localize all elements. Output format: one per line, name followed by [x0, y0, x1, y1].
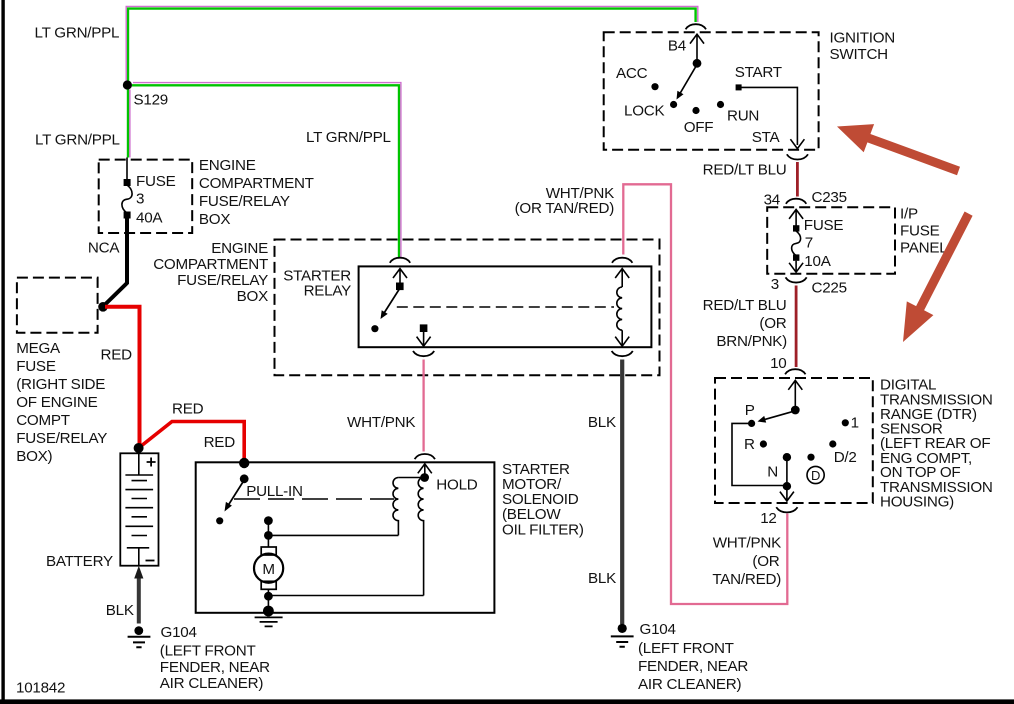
- svg-text:BOX: BOX: [199, 211, 230, 228]
- page left border: [1, 0, 4, 702]
- svg-text:WHT/PNK: WHT/PNK: [713, 535, 781, 552]
- contact dot N: [783, 453, 791, 461]
- relay mechanical link (dashed): [397, 306, 614, 308]
- svg-text:IGNITION: IGNITION: [830, 30, 896, 47]
- ignition B4 connector (half, above box): [686, 24, 706, 29]
- svg-text:RELAY: RELAY: [304, 283, 352, 300]
- svg-text:OF ENGINE: OF ENGINE: [16, 394, 97, 411]
- relay coil input connector (half, above box): [612, 258, 632, 263]
- motor lower dot: [264, 592, 273, 601]
- starter relay box: [359, 266, 652, 347]
- ignition switch blade: [679, 65, 698, 97]
- svg-text:D/2: D/2: [834, 449, 857, 466]
- engine compartment fuse box (dashed) around fuse 3: [99, 160, 193, 233]
- pull-in mechanical link (dashed, under label): [234, 498, 394, 500]
- svg-text:BATTERY: BATTERY: [46, 553, 113, 570]
- node at mega fuse output: [98, 302, 108, 312]
- wire LT GRN/PPL purple tracer (top run): [126, 6, 698, 88]
- svg-text:(OR: (OR: [752, 553, 779, 570]
- hold coil top tie wire: [398, 477, 424, 479]
- svg-text:C225: C225: [812, 279, 847, 296]
- svg-text:(OR: (OR: [759, 315, 786, 332]
- svg-text:TAN/RED): TAN/RED): [712, 571, 781, 588]
- wire RED: mega fuse to battery positive: [105, 307, 140, 446]
- wire RED/LT BLU (OR BRN/PNK): C225 to DTR pin 10: [795, 286, 798, 368]
- svg-text:COMPARTMENT: COMPARTMENT: [153, 256, 268, 273]
- relay input connector (half, above box): [390, 258, 410, 263]
- DTR sensor pin 10 connector (half, above box): [785, 369, 805, 374]
- motor M armature circle: [254, 554, 283, 583]
- wire BLK: relay coil to G104 (right): [620, 360, 624, 625]
- wire WHT/PNK: relay switch output down to solenoid: [422, 360, 424, 452]
- annotation arrow (to DTR sensor): [903, 212, 973, 343]
- annotation arrow (to ignition switch): [837, 124, 960, 175]
- wire P to N output: [732, 423, 787, 485]
- ground node on solenoid case: [263, 606, 274, 617]
- svg-text:MEGA: MEGA: [16, 340, 61, 357]
- svg-text:STA: STA: [752, 129, 781, 146]
- svg-text:3: 3: [136, 191, 144, 208]
- connector C235 (half, above panel): [786, 199, 806, 204]
- svg-text:P: P: [745, 402, 755, 419]
- motor feed upper dot: [264, 516, 273, 525]
- relay output connector (half, below box): [413, 351, 434, 356]
- motor M lower brush box: [261, 581, 276, 589]
- circled D symbol: [807, 466, 824, 483]
- svg-text:LOCK: LOCK: [624, 103, 664, 120]
- battery plates: [125, 475, 153, 536]
- wire LT GRN/PPL: S129 to starter relay (green): [132, 85, 399, 257]
- DTR input arrow pin 10: [788, 380, 802, 407]
- svg-text:FUSE/RELAY: FUSE/RELAY: [16, 430, 107, 447]
- N output junction dot: [783, 482, 791, 490]
- DTR selector blade (to P): [761, 411, 796, 421]
- svg-text:G104: G104: [161, 624, 197, 641]
- svg-text:3: 3: [771, 276, 779, 293]
- fuse F3 element: [122, 185, 132, 213]
- svg-text:LT GRN/PPL: LT GRN/PPL: [306, 129, 391, 146]
- connector C225 (half, below panel): [786, 277, 807, 282]
- svg-text:OFF: OFF: [684, 119, 714, 136]
- svg-text:(BELOW: (BELOW: [502, 506, 561, 523]
- DTR output arrow (down to box edge): [780, 488, 794, 501]
- contact dot RUN: [717, 101, 724, 108]
- svg-text:12: 12: [760, 510, 776, 527]
- fuse F7 element: [792, 231, 801, 256]
- battery negative terminal tee: [127, 548, 149, 566]
- wire RED/LT BLU: ignition STA to C235: [796, 162, 799, 197]
- N to output stem: [786, 457, 788, 488]
- svg-text:BOX): BOX): [16, 448, 52, 465]
- relay coil output connector (half, below box): [612, 351, 633, 356]
- svg-text:(RIGHT SIDE: (RIGHT SIDE: [16, 376, 105, 393]
- wire WHT/PNK: relay coil top loop to DTR pin 12: [623, 184, 787, 604]
- svg-text:(LEFT FRONT: (LEFT FRONT: [160, 642, 256, 659]
- svg-text:RED/LT BLU: RED/LT BLU: [703, 162, 787, 179]
- svg-text:BLK: BLK: [588, 414, 616, 431]
- relay coil: [617, 287, 622, 330]
- svg-text:FUSE: FUSE: [900, 223, 940, 240]
- ground G104 (left): [134, 626, 143, 635]
- hold coil left winding: [393, 478, 398, 536]
- ignition switch box (dashed): [604, 32, 819, 150]
- node S129 splice: [123, 80, 132, 89]
- svg-text:WHT/PNK: WHT/PNK: [347, 414, 415, 431]
- wire into fuse 3: [126, 158, 128, 184]
- svg-text:AIR CLEANER): AIR CLEANER): [160, 675, 264, 692]
- contact dot ACC: [651, 83, 658, 90]
- solenoid input arrow (from connector): [418, 464, 432, 474]
- mega fuse box (dashed): [17, 278, 98, 333]
- battery plus sign: [147, 458, 156, 467]
- fuse F7 top terminal dot: [793, 225, 799, 231]
- node at battery positive: [134, 443, 144, 453]
- fuse 7 output arrow: [789, 261, 803, 272]
- svg-text:START: START: [735, 64, 782, 81]
- ignition input arrow B4: [690, 34, 704, 60]
- svg-text:FUSE: FUSE: [16, 358, 56, 375]
- svg-text:FUSE/RELAY: FUSE/RELAY: [177, 272, 268, 289]
- svg-text:D: D: [811, 468, 820, 483]
- wire LT GRN/PPL: top run from S129 up and across to ignition B4 (green): [128, 9, 696, 88]
- relay switch blade: [383, 288, 401, 316]
- wire LT GRN/PPL purple tracer (down segment): [129, 90, 131, 158]
- svg-text:B4: B4: [668, 38, 686, 55]
- starter motor/solenoid box: [196, 462, 495, 613]
- engine compartment fuse/relay box (dashed outer): [275, 240, 660, 376]
- DTR blade arrowhead: [758, 416, 767, 423]
- node at solenoid feed: [239, 458, 249, 468]
- contact dot LOCK: [670, 101, 677, 108]
- svg-text:FUSE: FUSE: [804, 217, 844, 234]
- svg-text:PANEL: PANEL: [900, 240, 947, 257]
- relay switch pivot dot: [396, 283, 404, 291]
- motor lower wire: [267, 589, 269, 611]
- svg-text:FENDER, NEAR: FENDER, NEAR: [160, 659, 270, 676]
- STA output arrow (down to box edge): [790, 139, 804, 148]
- wire START to STA output: [740, 87, 797, 145]
- svg-text:G104: G104: [640, 621, 676, 638]
- contact dot D/2: [829, 440, 836, 447]
- relay coil output arrow (down to box edge): [615, 330, 629, 346]
- pull-in contact dot: [216, 517, 223, 524]
- svg-text:ENGINE: ENGINE: [211, 240, 268, 257]
- relay coil input arrow: [615, 269, 629, 287]
- motor M upper brush box: [261, 547, 276, 555]
- wire NCA (black) fuse 3 to mega fuse: [103, 218, 127, 307]
- svg-text:7: 7: [805, 234, 813, 251]
- ignition blade arrowhead: [677, 91, 684, 100]
- relay output terminal dot: [420, 324, 428, 332]
- svg-text:RED: RED: [204, 434, 236, 451]
- svg-text:1: 1: [851, 415, 859, 432]
- ground symbol under motor: [255, 617, 283, 626]
- svg-text:RUN: RUN: [727, 108, 759, 125]
- DTR selector pivot dot: [791, 406, 800, 415]
- svg-text:10: 10: [770, 355, 786, 372]
- svg-text:M: M: [262, 561, 274, 578]
- DTR pin 12 connector (half, below box): [776, 507, 797, 512]
- contact dot P: [748, 420, 755, 427]
- hold coil feed dot: [420, 473, 429, 482]
- relay output arrow (down to box edge): [417, 331, 431, 346]
- svg-text:BLK: BLK: [588, 570, 616, 587]
- svg-text:C235: C235: [812, 189, 847, 206]
- pull-in blade arrowhead: [225, 502, 232, 512]
- wire BLK: battery negative to G104 (with up arrow): [137, 575, 141, 624]
- wire LT GRN/PPL purple tracer (S129 to relay): [133, 83, 401, 257]
- svg-text:RED/LT BLU: RED/LT BLU: [703, 297, 787, 314]
- svg-text:I/P: I/P: [900, 206, 918, 223]
- wire RED: battery positive to starter solenoid: [139, 422, 245, 462]
- digital transmission range sensor box (dashed): [715, 378, 873, 503]
- svg-text:HOUSING): HOUSING): [880, 494, 954, 511]
- motor branch junction dot: [264, 531, 273, 540]
- contact dot (center, unlabeled): [807, 454, 814, 461]
- page bottom border: [0, 699, 1014, 704]
- svg-text:N: N: [767, 464, 778, 481]
- contact dot OFF: [692, 107, 699, 114]
- svg-text:LT GRN/PPL: LT GRN/PPL: [35, 132, 120, 149]
- fuse F7 bottom terminal dot: [793, 254, 799, 260]
- svg-text:101842: 101842: [16, 680, 65, 697]
- fuse F3 bottom terminal dot: [124, 212, 131, 219]
- svg-text:FUSE/RELAY: FUSE/RELAY: [199, 193, 290, 210]
- wire from motor bottom to hold coil return: [268, 595, 423, 597]
- pull-in switch blade: [227, 480, 245, 508]
- fuse F3 top terminal dot: [124, 179, 131, 186]
- svg-text:FENDER, NEAR: FENDER, NEAR: [638, 658, 748, 675]
- svg-text:AIR CLEANER): AIR CLEANER): [638, 676, 742, 693]
- svg-text:(LEFT FRONT: (LEFT FRONT: [638, 640, 734, 657]
- svg-text:BOX: BOX: [237, 288, 268, 305]
- svg-text:RED: RED: [172, 401, 204, 418]
- svg-text:R: R: [744, 436, 755, 453]
- svg-text:LT GRN/PPL: LT GRN/PPL: [35, 25, 120, 42]
- STA connector (half, below box): [787, 154, 808, 159]
- solenoid input connector (half): [415, 454, 435, 459]
- svg-text:OIL FILTER): OIL FILTER): [502, 522, 584, 539]
- contact dot START: [736, 84, 742, 90]
- svg-text:COMPARTMENT: COMPARTMENT: [199, 175, 314, 192]
- svg-text:S129: S129: [134, 92, 168, 109]
- battery minus sign: [146, 560, 155, 562]
- battery positive terminal stem: [138, 453, 140, 475]
- svg-text:HOLD: HOLD: [436, 477, 477, 494]
- svg-text:SWITCH: SWITCH: [830, 46, 888, 63]
- motor branch vertical wire: [267, 521, 269, 547]
- svg-text:RED: RED: [101, 347, 133, 364]
- fuse 7 input arrow: [789, 210, 803, 229]
- ignition switch pivot dot: [693, 59, 702, 68]
- contact dot 1: [842, 419, 849, 426]
- svg-text:FUSE: FUSE: [136, 173, 176, 190]
- svg-text:BLK: BLK: [106, 602, 134, 619]
- svg-text:34: 34: [764, 192, 780, 209]
- arrowhead up at battery negative: [134, 566, 143, 579]
- svg-text:NCA: NCA: [88, 240, 120, 257]
- pull-in switch pivot dot: [240, 474, 249, 483]
- svg-text:10A: 10A: [804, 253, 831, 270]
- svg-text:40A: 40A: [136, 210, 163, 227]
- ground G104 (right): [618, 624, 627, 633]
- relay contact dot: [371, 325, 378, 332]
- relay blade arrowhead: [381, 310, 388, 319]
- svg-text:BRN/PNK): BRN/PNK): [716, 333, 787, 350]
- battery case: [120, 453, 158, 565]
- svg-text:ENGINE: ENGINE: [199, 157, 256, 174]
- svg-text:COMPT: COMPT: [16, 412, 70, 429]
- I/P fuse panel box (dashed): [767, 207, 895, 273]
- svg-text:(OR TAN/RED): (OR TAN/RED): [515, 200, 615, 217]
- wire LT GRN/PPL: S129 down to fuse 3 (green): [127, 90, 129, 158]
- hold coil right winding: [418, 478, 423, 596]
- svg-text:PULL-IN: PULL-IN: [246, 483, 303, 500]
- contact dot R: [760, 440, 767, 447]
- wire from motor junction to hold coil bottom: [268, 534, 398, 536]
- relay switch input arrow: [393, 269, 407, 283]
- svg-text:ACC: ACC: [616, 65, 648, 82]
